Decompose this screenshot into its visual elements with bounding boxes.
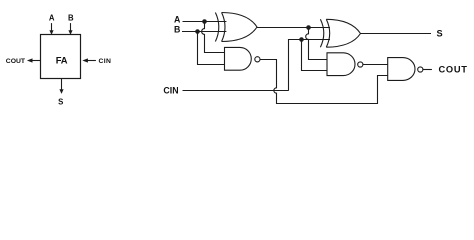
svg-text:A: A <box>49 13 55 22</box>
svg-text:COUT: COUT <box>439 65 468 75</box>
wire CIN branch down to NAND2 <box>302 40 328 71</box>
input arrow A into FA <box>49 23 53 35</box>
svg-text:S: S <box>58 98 63 107</box>
node XOR1-out junction dot <box>306 25 311 30</box>
node A junction dot <box>202 19 207 24</box>
wire A branch down to NAND1 with hop over B wire <box>202 22 225 53</box>
FA block box <box>41 35 81 79</box>
NAND gate U5 (carry out) <box>388 58 423 81</box>
wire CIN riser up to XOR2 input <box>289 40 331 91</box>
wire NAND2 output to NAND3 <box>363 64 388 66</box>
svg-text:COUT: COUT <box>6 58 26 65</box>
node B junction dot <box>195 29 200 34</box>
input arrow B into FA <box>68 23 72 35</box>
wire A input <box>183 21 227 23</box>
node CIN junction dot <box>299 37 304 42</box>
svg-text:CIN: CIN <box>163 86 178 96</box>
NAND gate U4 (XOR1-out nand CIN) <box>327 53 363 76</box>
XOR gate U2 (sum) <box>320 19 360 47</box>
wire B branch down to NAND1 <box>198 32 225 65</box>
svg-text:CIN: CIN <box>99 58 112 65</box>
wire XOR1-out branch down to NAND2 with hop <box>306 28 327 60</box>
input arrow CIN into FA <box>82 58 96 62</box>
output arrow COUT out of FA <box>27 58 41 62</box>
svg-text:S: S <box>437 29 443 39</box>
wire CIN input run <box>183 90 289 92</box>
wire COUT output <box>423 69 432 71</box>
wire B input <box>182 31 226 33</box>
wire NAND1 output right then down to bottom rail with hop over CIN <box>260 60 388 104</box>
svg-text:B: B <box>68 13 74 22</box>
output arrow S out of FA <box>59 79 63 94</box>
svg-text:A: A <box>174 14 181 24</box>
wire XOR1 output to XOR2 <box>257 27 330 29</box>
svg-text:B: B <box>174 25 180 35</box>
NAND gate U3 (A nand B) <box>225 47 261 70</box>
svg-text:FA: FA <box>56 55 68 66</box>
wire S output <box>361 33 432 35</box>
XOR gate U1 (A xor B) <box>215 13 257 42</box>
